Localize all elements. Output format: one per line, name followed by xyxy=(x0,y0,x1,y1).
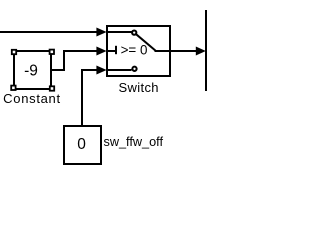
switch input 1 contact circle xyxy=(132,30,136,34)
wire into switch input 1 xyxy=(0,31,97,33)
svg-text:-9: -9 xyxy=(24,63,38,80)
wire from sw_ffw_off to switch input 3 xyxy=(82,70,97,125)
arrowhead at downstream block xyxy=(196,47,206,56)
switch input 3 stub xyxy=(108,69,132,71)
switch input 1 stub xyxy=(108,31,132,33)
arrowhead at switch input 1 xyxy=(96,28,106,37)
switch threshold tick xyxy=(115,46,117,54)
svg-text:Switch: Switch xyxy=(119,80,159,95)
wire from Constant to switch input 2 xyxy=(51,51,97,70)
svg-text:>= 0: >= 0 xyxy=(121,42,148,57)
arrowhead at switch input 3 xyxy=(96,66,106,75)
output wire from Switch xyxy=(170,50,197,52)
svg-text:Constant: Constant xyxy=(3,91,61,106)
switch lever xyxy=(136,34,155,50)
selection handle top-right xyxy=(50,50,54,54)
selection handle top-left xyxy=(12,50,16,54)
edge of downstream block at right xyxy=(205,10,207,91)
arrowhead at switch input 2 xyxy=(96,47,106,56)
switch input 2 stub xyxy=(108,50,115,52)
Constant block body xyxy=(14,51,51,89)
switch input 3 contact circle xyxy=(132,67,136,71)
svg-text:sw_ffw_off: sw_ffw_off xyxy=(104,135,164,149)
selection handle bottom-left xyxy=(11,86,15,90)
sw_ffw_off constant block body xyxy=(64,126,101,164)
svg-text:0: 0 xyxy=(77,136,86,153)
switch internal output line xyxy=(155,50,171,52)
Switch block body xyxy=(107,26,170,76)
selection handle bottom-right xyxy=(50,86,54,90)
